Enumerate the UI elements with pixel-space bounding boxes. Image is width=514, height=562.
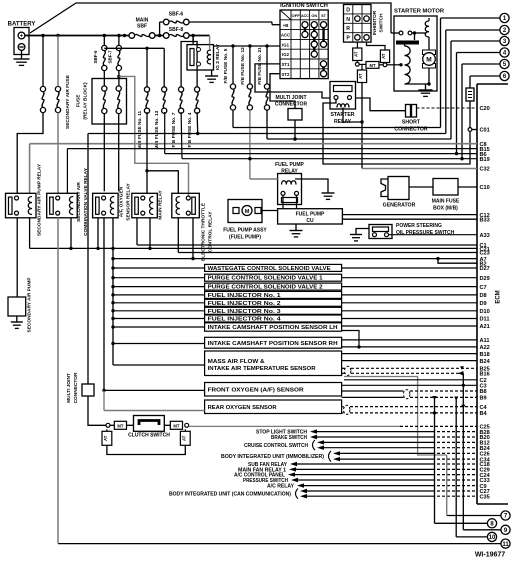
svg-text:BODY INTEGRATED UNIT (IMMOBILI: BODY INTEGRATED UNIT (IMMOBILIZER) [221,454,324,460]
svg-text:+B: +B [283,23,289,28]
svg-text:AT: AT [358,73,363,79]
svg-text:F/B FUSE No. 12: F/B FUSE No. 12 [240,47,246,85]
svg-text:C01: C01 [480,128,490,134]
svg-text:SBF: SBF [137,24,147,30]
svg-text:B18: B18 [480,352,490,358]
svg-text:ST2: ST2 [282,72,290,77]
svg-text:BRAKE SWITCH: BRAKE SWITCH [271,435,307,441]
svg-text:F/B FUSE No. 5: F/B FUSE No. 5 [223,48,229,83]
svg-text:SECONDARY AIR PUMP: SECONDARY AIR PUMP [27,277,33,333]
svg-text:SECONDARY AIR FUSE: SECONDARY AIR FUSE [65,74,71,129]
svg-text:CONTROL RELAY: CONTROL RELAY [208,211,214,253]
svg-text:R: R [346,26,350,32]
svg-text:C20: C20 [480,106,490,112]
svg-text:11: 11 [502,542,509,548]
svg-text:IGNITION SWITCH: IGNITION SWITCH [280,3,328,9]
svg-text:M: M [426,57,431,64]
svg-text:M: M [245,209,250,215]
svg-text:C23: C23 [480,251,490,257]
svg-text:B24: B24 [480,359,491,365]
svg-text:AT: AT [381,53,386,59]
svg-text:ACC: ACC [301,14,309,18]
svg-text:ON: ON [311,14,317,18]
svg-text:OIL PRESSURE SWITCH: OIL PRESSURE SWITCH [396,230,455,236]
svg-text:CU: CU [306,218,314,224]
svg-text:PURGE CONTROL SOLENOID VALVE 1: PURGE CONTROL SOLENOID VALVE 1 [208,276,323,282]
svg-text:CRUISE CONTROL SWITCH: CRUISE CONTROL SWITCH [244,443,308,449]
svg-text:A33: A33 [480,233,490,239]
svg-text:FUEL INJECTOR No. 2: FUEL INJECTOR No. 2 [208,301,281,307]
svg-text:A/C RELAY: A/C RELAY [267,484,295,490]
svg-text:C32: C32 [480,167,490,173]
svg-text:(FUEL PUMP): (FUEL PUMP) [229,235,261,241]
svg-text:INTAKE CAMSHAFT POSITION SENSO: INTAKE CAMSHAFT POSITION SENSOR RH [208,341,338,347]
svg-text:BATTERY: BATTERY [8,22,36,28]
svg-text:F/B FUSE No. 4: F/B FUSE No. 4 [187,112,193,147]
svg-text:B33: B33 [480,217,490,223]
svg-text:F/B FUSE No. 7: F/B FUSE No. 7 [171,112,177,147]
svg-text:MAIN FUSE: MAIN FUSE [432,199,460,205]
svg-text:SHORT: SHORT [402,120,421,126]
svg-text:BODY INTEGRATED UNIT (CAN COMM: BODY INTEGRATED UNIT (CAN COMMUNICATION) [169,492,291,498]
svg-text:FUSE: FUSE [76,94,82,108]
svg-text:D9: D9 [480,301,487,307]
svg-text:COMBINATION VALVE RELAY: COMBINATION VALVE RELAY [83,167,89,236]
svg-text:C7: C7 [480,285,487,291]
svg-text:INTAKE CAMSHAFT POSITION SENSO: INTAKE CAMSHAFT POSITION SENSOR LH [208,325,338,331]
svg-text:B8: B8 [480,389,487,395]
svg-text:D27: D27 [480,266,490,272]
svg-text:SECONDARY AIR: SECONDARY AIR [76,182,82,222]
svg-text:P: P [346,36,350,42]
svg-text:INHIBITOR: INHIBITOR [372,10,378,35]
svg-text:GENERATOR: GENERATOR [383,203,416,209]
svg-text:MAIN RELAY: MAIN RELAY [158,190,164,220]
svg-text:INTAKE AIR TEMPERATURE SENSOR: INTAKE AIR TEMPERATURE SENSOR [208,366,316,372]
svg-text:AT: AT [353,51,358,57]
svg-text:ECM: ECM [496,290,502,303]
svg-text:SBF-8: SBF-8 [169,27,184,33]
svg-text:IG1: IG1 [282,42,290,47]
svg-text:FUEL PUMP ASSY: FUEL PUMP ASSY [223,228,267,234]
svg-text:A21: A21 [480,324,490,330]
svg-text:B19: B19 [480,157,490,163]
svg-text:MASS AIR FLOW &: MASS AIR FLOW & [208,359,265,365]
svg-text:C4: C4 [480,405,488,411]
svg-text:D8: D8 [480,293,487,299]
svg-text:D10: D10 [480,309,490,315]
svg-text:CLUTCH SWITCH: CLUTCH SWITCH [128,433,170,439]
svg-text:A22: A22 [480,345,490,351]
svg-text:FRONT OXYGEN (A/F) SENSOR: FRONT OXYGEN (A/F) SENSOR [208,387,304,393]
svg-text:D: D [346,7,350,13]
svg-text:MULTI JOINT: MULTI JOINT [275,95,306,101]
svg-text:PURGE CONTROL SOLENOID VALVE 2: PURGE CONTROL SOLENOID VALVE 2 [208,285,323,291]
svg-text:MT: MT [173,424,179,429]
svg-text:SBF-6: SBF-6 [93,50,98,63]
svg-text:SBF-7: SBF-7 [108,50,113,63]
svg-text:REAR OXYGEN SENSOR: REAR OXYGEN SENSOR [208,405,277,411]
svg-text:ACC: ACC [281,33,290,38]
svg-text:(RELAY BLOCK): (RELAY BLOCK) [83,82,89,120]
svg-text:A/F, OXYGEN: A/F, OXYGEN [119,186,125,217]
svg-text:POWER STEERING: POWER STEERING [396,223,442,229]
svg-text:ST: ST [321,14,327,18]
svg-text:A11: A11 [480,338,490,344]
svg-text:CONNECTOR: CONNECTOR [275,102,308,108]
svg-text:IG2: IG2 [282,52,290,57]
svg-text:CONNECTOR: CONNECTOR [73,372,79,403]
svg-text:SBF-6: SBF-6 [169,12,184,18]
svg-text:+: + [20,34,24,40]
svg-text:C35: C35 [480,494,490,500]
svg-text:IG 2 RELAY: IG 2 RELAY [215,43,221,70]
svg-text:MULTI JOINT: MULTI JOINT [66,373,72,403]
svg-text:FUEL INJECTOR No. 1: FUEL INJECTOR No. 1 [208,293,281,299]
svg-text:STARTER MOTOR: STARTER MOTOR [394,9,445,15]
svg-text:C10: C10 [480,185,490,191]
svg-text:ST1: ST1 [282,62,290,67]
svg-text:MT: MT [117,424,123,429]
svg-text:B4: B4 [480,411,488,417]
svg-text:B9: B9 [480,396,487,402]
svg-text:FUEL INJECTOR No. 4: FUEL INJECTOR No. 4 [208,317,281,323]
svg-text:FUEL PUMP: FUEL PUMP [275,162,304,168]
svg-text:OFF: OFF [292,14,301,18]
svg-text:D29: D29 [480,276,490,282]
svg-text:SENSOR RELAY: SENSOR RELAY [126,183,132,221]
svg-text:FUEL INJECTOR No. 3: FUEL INJECTOR No. 3 [208,309,281,315]
svg-text:WASTEGATE CONTROL SOLENOID VAL: WASTEGATE CONTROL SOLENOID VALVE [208,266,332,272]
svg-text:10: 10 [489,535,496,541]
svg-text:BOX (M/B): BOX (M/B) [433,206,458,212]
svg-text:SECONDARY AIR PUMP RELAY: SECONDARY AIR PUMP RELAY [37,163,43,236]
svg-text:AT: AT [103,435,108,441]
svg-text:FUEL PUMP: FUEL PUMP [296,212,325,218]
svg-text:WI-19677: WI-19677 [475,552,505,559]
svg-text:B16: B16 [480,372,490,378]
svg-text:N: N [346,17,350,23]
svg-text:SWITCH: SWITCH [378,13,384,32]
svg-text:MT: MT [369,63,375,68]
svg-text:AT: AT [181,435,186,441]
svg-text:D11: D11 [480,317,490,323]
svg-text:F/B FUSE No. 21: F/B FUSE No. 21 [257,47,263,85]
